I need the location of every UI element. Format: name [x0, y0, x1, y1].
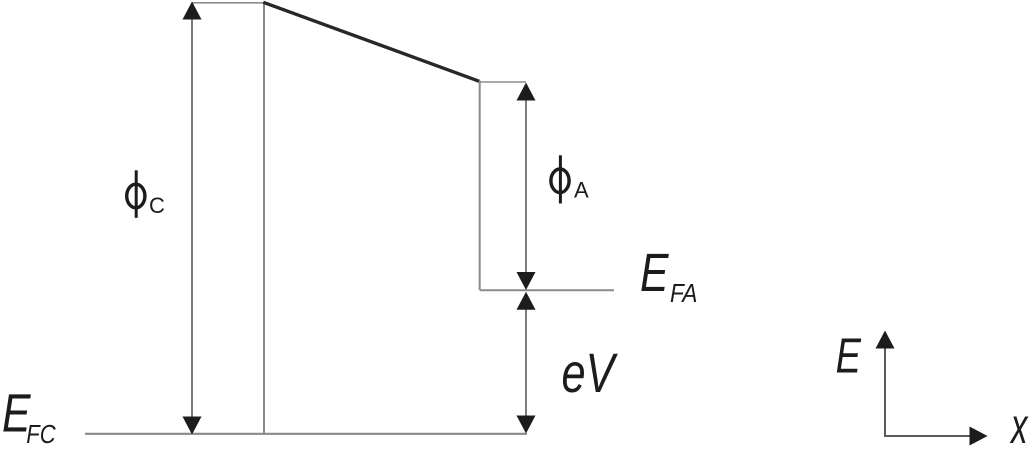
label phi_C glyph (drawn phi: ellipse + bar) [127, 170, 145, 218]
node E_FC level line [85, 433, 527, 435]
svg-text:FA: FA [670, 278, 697, 308]
axis E (vertical energy axis with arrow) [876, 331, 895, 437]
axis x (horizontal position axis with arrow) [884, 427, 988, 446]
label phi_A glyph (drawn phi: ellipse + bar) [551, 155, 569, 203]
wire sloped vacuum barrier level [263, 2, 479, 81]
svg-text:x: x [1010, 398, 1029, 449]
label eV [562, 341, 619, 404]
svg-text:C: C [149, 193, 165, 218]
wire cathode band edge vertical [263, 3, 265, 435]
label phi_A subscript A [574, 178, 589, 203]
wire connector from slant end to phi_A arrow top [480, 81, 526, 83]
wire anode band edge vertical [479, 81, 481, 291]
label phi_C subscript C [149, 193, 165, 218]
label E axis [836, 330, 862, 384]
label E_FA [640, 243, 697, 308]
svg-text:eV: eV [562, 341, 619, 404]
arrow eV (double-headed vertical measure) [517, 292, 536, 434]
svg-text:E: E [836, 330, 862, 384]
label x axis [1010, 398, 1029, 454]
arrow phi_C (double-headed vertical measure) [183, 2, 202, 435]
node E_FA level line [480, 289, 614, 291]
svg-text:E: E [640, 243, 669, 303]
arrow phi_A (double-headed vertical measure) [517, 83, 536, 291]
wire top connector from phi_C arrow to cathode band corner [192, 2, 264, 4]
label E_FC [2, 384, 56, 450]
svg-text:A: A [574, 178, 589, 203]
svg-text:FC: FC [26, 419, 55, 449]
